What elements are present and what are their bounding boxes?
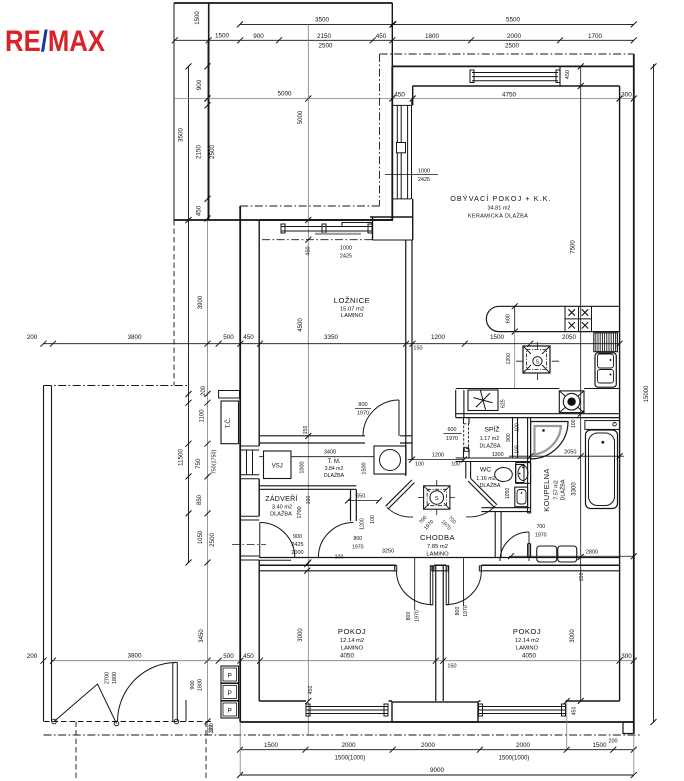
dimension 5500 line bbox=[393, 23, 634, 25]
island ext line bbox=[514, 332, 516, 389]
svg-text:P: P bbox=[228, 708, 232, 715]
svg-text:200: 200 bbox=[27, 653, 38, 660]
kitchen west wall bbox=[455, 390, 457, 418]
north window glass lines bbox=[472, 73, 558, 81]
washbasin bbox=[516, 463, 531, 484]
svg-text:2050: 2050 bbox=[564, 450, 576, 456]
gate small post bbox=[185, 700, 187, 722]
svg-text:12.14 m2: 12.14 m2 bbox=[340, 638, 364, 644]
svg-text:7500: 7500 bbox=[571, 240, 577, 254]
svg-text:KOUPELNA: KOUPELNA bbox=[542, 468, 551, 511]
svg-text:1800: 1800 bbox=[425, 33, 440, 40]
svg-text:1970: 1970 bbox=[352, 545, 364, 551]
heat pump TC box bbox=[221, 401, 239, 444]
grey dim line y=99.7 bbox=[174, 98, 634, 100]
partition wall lines bbox=[406, 240, 412, 476]
svg-text:2050: 2050 bbox=[562, 334, 577, 341]
south inner wall bbox=[259, 700, 619, 702]
svg-text:700: 700 bbox=[537, 524, 546, 530]
svg-text:1500: 1500 bbox=[592, 742, 607, 749]
svg-text:1050: 1050 bbox=[198, 530, 204, 544]
ticks x=188.5 bbox=[186, 63, 192, 565]
koupelna door arc bbox=[500, 532, 529, 561]
south window2 posts bbox=[479, 704, 483, 716]
svg-text:2000: 2000 bbox=[516, 742, 531, 749]
entry door arc bbox=[260, 523, 295, 558]
yard dashed left bbox=[75, 722, 77, 781]
svg-text:2700: 2700 bbox=[105, 672, 111, 684]
south window2 bbox=[479, 707, 566, 714]
loznice window posts bbox=[281, 224, 285, 233]
gate fold leaf bbox=[54, 684, 117, 724]
ticks chain y=40 bbox=[172, 37, 637, 43]
bath shelf bbox=[585, 421, 620, 430]
svg-text:1000: 1000 bbox=[340, 246, 352, 252]
svg-text:11500: 11500 bbox=[178, 448, 185, 466]
kitchen sink basin1 bbox=[598, 354, 614, 368]
svg-text:OBÝVACÍ POKOJ + K.K.: OBÝVACÍ POKOJ + K.K. bbox=[450, 194, 552, 203]
svg-text:DLAŽBA: DLAŽBA bbox=[324, 471, 345, 479]
east inner wall bbox=[619, 86, 621, 701]
west outer wall upper bbox=[391, 66, 393, 220]
corner block top bbox=[370, 216, 413, 218]
terrace bottom wall y=220 bbox=[174, 219, 393, 221]
top neighbour wall line bbox=[174, 2, 393, 4]
corner block left bbox=[372, 217, 374, 240]
pokoj2 door arc bbox=[446, 571, 481, 605]
svg-text:1.16 m2: 1.16 m2 bbox=[476, 476, 495, 482]
svg-text:3500: 3500 bbox=[315, 17, 330, 24]
dim line y=343 full bbox=[44, 343, 620, 345]
pokoj2 door ext line bbox=[463, 558, 465, 607]
bathtub inner bbox=[589, 433, 615, 506]
loznice door arc bbox=[363, 400, 399, 436]
svg-text:900: 900 bbox=[293, 534, 302, 540]
south step box bbox=[623, 722, 634, 734]
chodba symbol crossdash bbox=[418, 480, 455, 515]
spiz east wall bbox=[513, 418, 518, 458]
svg-text:1500: 1500 bbox=[195, 11, 201, 25]
svg-text:12.14 m2: 12.14 m2 bbox=[515, 638, 539, 644]
ticks x=580.7 bbox=[578, 63, 584, 704]
wc toilet bbox=[495, 468, 513, 482]
balcony dash-dot left bbox=[379, 54, 381, 206]
pokoj1 door ext line bbox=[414, 558, 416, 611]
svg-text:SPÍŽ: SPÍŽ bbox=[484, 425, 499, 434]
chodba ceiling symbol square bbox=[424, 486, 450, 509]
svg-text:200: 200 bbox=[608, 739, 617, 745]
shower drain dot bbox=[542, 429, 545, 432]
south pillar block bbox=[392, 702, 478, 722]
svg-text:2150: 2150 bbox=[196, 145, 203, 160]
spiz south wall bbox=[456, 458, 531, 462]
spiz door connector bbox=[464, 447, 468, 451]
extension line x=174 dashed bbox=[173, 220, 175, 386]
hatched block bbox=[594, 333, 618, 352]
kitchen sink basin2 bbox=[598, 370, 614, 384]
pokoj1 door leaf bbox=[430, 566, 433, 605]
svg-text:900: 900 bbox=[190, 680, 196, 689]
svg-text:100: 100 bbox=[306, 496, 312, 505]
fence top dashdot bbox=[44, 385, 190, 387]
grey extension line x=207.5 bbox=[207, 42, 209, 735]
dimension chain y=40 bbox=[175, 39, 634, 41]
svg-text:KERAMICKÁ DLAŽBA: KERAMICKÁ DLAŽBA bbox=[468, 212, 528, 220]
south band line1 bbox=[259, 557, 619, 559]
svg-text:3250: 3250 bbox=[382, 549, 394, 555]
tm door diagonal leaf bbox=[386, 480, 415, 509]
door jamb posts bbox=[395, 566, 397, 571]
ext line x=566.75 bbox=[566, 701, 568, 750]
wc south wall bbox=[481, 508, 530, 512]
svg-text:750: 750 bbox=[195, 458, 202, 469]
svg-text:2000: 2000 bbox=[421, 742, 436, 749]
grey dim line y=660.7 bbox=[52, 660, 634, 662]
wc west wall bbox=[466, 462, 471, 479]
svg-text:2000: 2000 bbox=[291, 550, 303, 556]
south outer wall bbox=[240, 721, 634, 723]
loznice window sill grey bbox=[315, 233, 361, 235]
stove diagonals bbox=[523, 346, 550, 373]
svg-text:POKOJ: POKOJ bbox=[513, 627, 541, 636]
svg-text:800: 800 bbox=[406, 612, 412, 621]
svg-text:5500: 5500 bbox=[506, 17, 521, 24]
svg-text:15.07 m2: 15.07 m2 bbox=[340, 307, 364, 313]
svg-text:1500(1000): 1500(1000) bbox=[335, 756, 366, 762]
chodba symbol circle S bbox=[430, 491, 444, 505]
svg-text:3450: 3450 bbox=[199, 629, 205, 643]
svg-text:2425: 2425 bbox=[340, 254, 352, 260]
small basin bbox=[515, 487, 528, 507]
ticks y=343 bbox=[41, 341, 623, 347]
koupelna top wall bbox=[456, 414, 620, 418]
ticks x=308.3 bbox=[305, 217, 311, 704]
svg-text:150: 150 bbox=[303, 426, 309, 435]
island depth dim line bbox=[514, 306, 516, 331]
svg-text:15000: 15000 bbox=[644, 385, 650, 402]
svg-text:LOŽNICE: LOŽNICE bbox=[334, 296, 370, 305]
south band line3 bbox=[259, 570, 619, 572]
balcony dash-dot bottom bbox=[240, 205, 379, 207]
stove inner dashdot bbox=[516, 342, 559, 380]
island x marks bbox=[569, 309, 589, 328]
island cells bbox=[565, 306, 592, 331]
svg-text:VSJ: VSJ bbox=[272, 464, 283, 470]
corner block bottom bbox=[373, 239, 413, 241]
svg-text:7.85 m2: 7.85 m2 bbox=[427, 544, 448, 550]
boiler star bbox=[473, 391, 492, 410]
zadveri east wall bbox=[351, 489, 357, 521]
svg-text:500: 500 bbox=[223, 653, 234, 660]
svg-text:800: 800 bbox=[455, 607, 461, 616]
svg-text:1000: 1000 bbox=[300, 461, 306, 473]
washer box bbox=[374, 446, 406, 474]
svg-text:200: 200 bbox=[209, 725, 215, 734]
ext x=240 bottom bbox=[239, 722, 241, 775]
svg-text:2150: 2150 bbox=[317, 33, 332, 40]
svg-text:1500: 1500 bbox=[264, 742, 279, 749]
koupelna door caps bbox=[528, 513, 531, 544]
tm north wall bbox=[259, 436, 412, 443]
svg-text:200: 200 bbox=[201, 385, 207, 396]
svg-text:1200: 1200 bbox=[432, 453, 444, 459]
svg-text:3400: 3400 bbox=[324, 450, 336, 456]
ticks x307 south bbox=[304, 561, 310, 574]
svg-text:LAMINO: LAMINO bbox=[426, 552, 449, 558]
P box 2 bbox=[221, 684, 239, 701]
south band line2 bbox=[259, 564, 619, 566]
north outer wall bbox=[392, 65, 634, 67]
P box 3 bbox=[221, 701, 239, 718]
spiz west wall bbox=[464, 390, 470, 458]
svg-text:500: 500 bbox=[223, 334, 234, 341]
yard dashed bottom bbox=[44, 721, 212, 723]
svg-text:1.17 m2: 1.17 m2 bbox=[480, 436, 499, 442]
svg-text:850: 850 bbox=[197, 494, 203, 505]
svg-text:1050: 1050 bbox=[505, 488, 511, 500]
svg-text:4500: 4500 bbox=[298, 318, 304, 332]
ticks on x=207.5 bbox=[205, 63, 211, 724]
svg-text:150: 150 bbox=[447, 664, 456, 670]
svg-text:1500: 1500 bbox=[362, 462, 368, 474]
balcony dash-dot top bbox=[380, 53, 634, 55]
svg-text:3350: 3350 bbox=[324, 334, 339, 341]
window sill tick line bbox=[385, 174, 438, 176]
svg-text:DLAŽBA: DLAŽBA bbox=[559, 479, 567, 500]
floor drain ring bbox=[563, 393, 580, 410]
svg-text:4750: 4750 bbox=[502, 92, 517, 99]
svg-text:800: 800 bbox=[358, 402, 367, 408]
svg-text:1200: 1200 bbox=[431, 334, 446, 341]
svg-text:2800: 2800 bbox=[586, 550, 598, 556]
dimension 3500 line bbox=[240, 23, 393, 25]
west outer wall bbox=[239, 206, 241, 722]
svg-text:100: 100 bbox=[515, 445, 521, 454]
stove S bbox=[533, 357, 542, 366]
svg-text:900: 900 bbox=[506, 433, 512, 442]
svg-text:600: 600 bbox=[506, 314, 512, 323]
kitchen counter front bbox=[456, 388, 620, 390]
top strip right edge bbox=[391, 3, 393, 66]
left wall upper segment bbox=[208, 3, 210, 220]
east outer wall bbox=[633, 54, 635, 734]
svg-text:450: 450 bbox=[376, 33, 387, 40]
svg-text:1500: 1500 bbox=[215, 33, 230, 40]
dim 650 bbox=[348, 500, 379, 502]
pokoj1 door arc bbox=[396, 571, 431, 605]
svg-text:LAMINO: LAMINO bbox=[341, 646, 364, 652]
svg-text:800: 800 bbox=[353, 536, 362, 542]
svg-text:CHODBA: CHODBA bbox=[420, 533, 455, 542]
svg-text:300: 300 bbox=[621, 92, 632, 99]
loznice top wall bbox=[259, 219, 393, 221]
svg-text:1000: 1000 bbox=[418, 168, 430, 174]
svg-text:2425: 2425 bbox=[291, 542, 303, 548]
dim 2050 line bath bbox=[509, 455, 624, 457]
spiz door leaf dashed bbox=[464, 424, 469, 449]
svg-text:450: 450 bbox=[306, 246, 312, 255]
gate leaf open bbox=[173, 663, 178, 722]
svg-text:450: 450 bbox=[243, 334, 254, 341]
svg-text:900: 900 bbox=[253, 33, 264, 40]
west inner wall upper bbox=[412, 86, 414, 240]
svg-text:DLAŽBA: DLAŽBA bbox=[480, 481, 501, 489]
west window mullion bbox=[397, 143, 406, 153]
tm door arc chodba bbox=[387, 508, 413, 518]
dim 2800 line bbox=[509, 555, 634, 557]
entry threshold dashdot bbox=[232, 544, 266, 546]
dim line x=653.5 bbox=[653, 64, 655, 722]
svg-text:1970: 1970 bbox=[446, 436, 458, 442]
kitchen island outline bbox=[486, 306, 619, 331]
svg-text:450: 450 bbox=[572, 707, 578, 716]
svg-text:450: 450 bbox=[394, 92, 405, 99]
gate fold hinges bbox=[52, 719, 57, 724]
svg-text:LAMINO: LAMINO bbox=[516, 646, 539, 652]
ticks y=749.7 bbox=[237, 747, 637, 753]
boiler box bbox=[468, 390, 498, 411]
fence outer line bbox=[43, 386, 45, 722]
svg-text:S: S bbox=[536, 359, 540, 365]
svg-text:1970: 1970 bbox=[415, 610, 421, 622]
ticks y=660.7 bbox=[41, 658, 637, 664]
svg-text:100: 100 bbox=[370, 515, 376, 524]
west window dashdot face bbox=[411, 100, 413, 199]
stove square bbox=[523, 346, 550, 373]
ticks x=653.5 bbox=[651, 63, 657, 725]
vsj box bbox=[264, 451, 292, 479]
chodba-koupelna wall lower bbox=[495, 512, 501, 558]
svg-text:450: 450 bbox=[243, 653, 254, 660]
dim 1200 opening line bbox=[408, 459, 464, 461]
zadveri door arc bbox=[318, 523, 353, 558]
svg-text:900: 900 bbox=[196, 79, 203, 90]
svg-text:4050: 4050 bbox=[522, 653, 537, 660]
svg-text:3500: 3500 bbox=[178, 128, 185, 143]
dim 9000 line bbox=[240, 774, 634, 776]
svg-text:3900: 3900 bbox=[198, 295, 204, 309]
ticks 5500 bbox=[390, 21, 637, 27]
kitchen sink outer bbox=[595, 353, 616, 387]
svg-text:9000: 9000 bbox=[430, 767, 445, 774]
tm south wall bbox=[259, 486, 356, 490]
svg-text:600: 600 bbox=[448, 427, 457, 433]
vanity unit bbox=[537, 546, 557, 562]
north wall step bbox=[559, 66, 561, 86]
svg-text:S: S bbox=[435, 496, 439, 502]
svg-text:2500: 2500 bbox=[318, 43, 333, 50]
wc door arc chodba bbox=[466, 506, 496, 517]
south window1 posts bbox=[306, 704, 310, 716]
shower tray inner bbox=[535, 426, 562, 455]
entry door frame bbox=[240, 516, 259, 560]
south window1 bbox=[306, 707, 388, 714]
svg-text:WC: WC bbox=[480, 467, 491, 474]
svg-text:3800: 3800 bbox=[127, 653, 142, 660]
svg-text:3300: 3300 bbox=[572, 482, 578, 496]
svg-text:1970: 1970 bbox=[357, 411, 369, 417]
svg-text:150: 150 bbox=[413, 346, 422, 352]
svg-text:P: P bbox=[228, 673, 232, 680]
svg-text:150: 150 bbox=[579, 573, 585, 582]
bathtub drain bbox=[601, 441, 604, 444]
svg-text:1700: 1700 bbox=[588, 33, 603, 40]
svg-text:LAMINO: LAMINO bbox=[341, 313, 364, 319]
pokoj partition bbox=[436, 565, 444, 701]
fence inner line bbox=[51, 386, 53, 722]
svg-text:DLAŽBA: DLAŽBA bbox=[480, 442, 501, 450]
svg-text:DLAŽBA: DLAŽBA bbox=[270, 510, 292, 518]
ticks 3500 bbox=[237, 21, 396, 27]
svg-text:4050: 4050 bbox=[340, 653, 355, 660]
pokoj2 door leaf bbox=[446, 566, 449, 605]
koupelna west wall bbox=[528, 418, 531, 558]
washer drum bbox=[380, 450, 401, 471]
north window posts bbox=[470, 70, 474, 83]
west window frame bbox=[392, 105, 411, 198]
floor drain square bbox=[559, 391, 584, 413]
ext x=633.8 bottom bbox=[633, 734, 635, 776]
P box 1 bbox=[221, 666, 239, 683]
step bar bbox=[219, 391, 240, 399]
loznice window band right bbox=[342, 223, 372, 227]
svg-text:300: 300 bbox=[621, 653, 632, 660]
loznice window glass bbox=[281, 227, 372, 232]
svg-text:450: 450 bbox=[196, 205, 203, 216]
shower tray outer bbox=[531, 422, 568, 459]
svg-text:3800: 3800 bbox=[127, 334, 142, 341]
svg-text:1200: 1200 bbox=[506, 353, 512, 365]
dim line x=188.5 (3500/11500) bbox=[188, 66, 190, 562]
svg-text:7.57 m2: 7.57 m2 bbox=[554, 480, 560, 499]
svg-text:1500: 1500 bbox=[490, 334, 505, 341]
svg-text:T.Č.: T.Č. bbox=[225, 417, 232, 428]
svg-text:450: 450 bbox=[308, 686, 314, 695]
grey extension x=308.3 bbox=[307, 24, 309, 735]
dim 3400 line bbox=[259, 456, 374, 458]
svg-text:ZÁDVEŘÍ: ZÁDVEŘÍ bbox=[265, 494, 297, 503]
svg-text:1500(1000): 1500(1000) bbox=[499, 756, 530, 762]
svg-text:100: 100 bbox=[415, 462, 424, 468]
chodba symbol diagonals bbox=[424, 486, 450, 509]
svg-text:3000: 3000 bbox=[570, 629, 576, 643]
west inner wall bbox=[258, 220, 260, 701]
svg-text:1970: 1970 bbox=[535, 533, 547, 539]
svg-text:100: 100 bbox=[571, 419, 577, 428]
dim chain y=749.7 bbox=[240, 749, 634, 751]
svg-text:T. M.: T. M. bbox=[328, 459, 341, 465]
svg-text:200: 200 bbox=[27, 334, 38, 341]
svg-text:1300: 1300 bbox=[492, 452, 504, 458]
svg-text:3.84 m2: 3.84 m2 bbox=[325, 466, 344, 472]
svg-text:POKOJ: POKOJ bbox=[338, 627, 366, 636]
svg-text:1200: 1200 bbox=[360, 518, 366, 530]
tm window frame bbox=[240, 446, 259, 479]
svg-text:100: 100 bbox=[514, 423, 520, 432]
plot dashdot line bbox=[44, 734, 641, 736]
svg-text:1700: 1700 bbox=[297, 506, 303, 518]
svg-text:34.81 m2: 34.81 m2 bbox=[488, 206, 511, 212]
svg-text:2425: 2425 bbox=[418, 177, 430, 183]
dim line x=580.7 bbox=[580, 66, 582, 701]
yard dashed right bbox=[205, 722, 207, 781]
top strip left edge bbox=[173, 3, 175, 42]
floor drain diagonals bbox=[559, 391, 584, 413]
ticks y=99.7 bbox=[205, 96, 637, 102]
svg-text:650: 650 bbox=[356, 494, 365, 500]
svg-text:RE/MAX: RE/MAX bbox=[5, 25, 105, 58]
svg-text:2000: 2000 bbox=[507, 33, 522, 40]
